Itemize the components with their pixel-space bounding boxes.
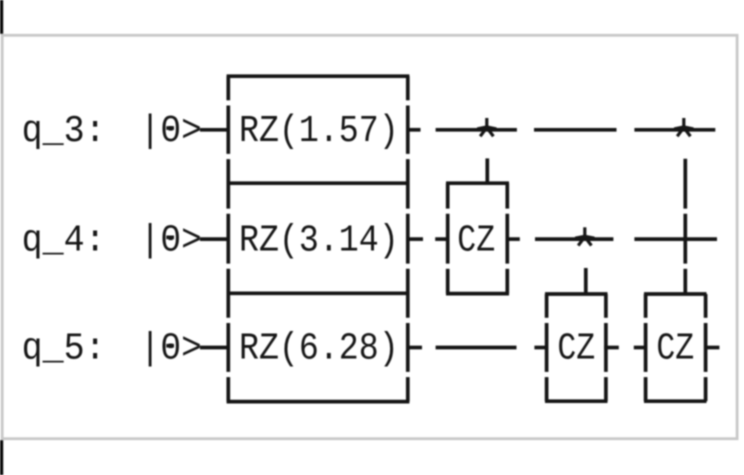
svg-text:|0>: |0>	[140, 110, 202, 153]
svg-text:|0>: |0>	[140, 328, 202, 371]
svg-text:q_5:: q_5:	[22, 328, 106, 371]
svg-text:q_3:: q_3:	[22, 110, 106, 153]
svg-text:q_4:: q_4:	[22, 219, 106, 262]
svg-text:RZ(6.28): RZ(6.28)	[239, 328, 399, 371]
svg-text:CZ: CZ	[457, 219, 495, 262]
svg-text:CZ: CZ	[557, 328, 595, 371]
svg-text:RZ(3.14): RZ(3.14)	[239, 219, 399, 262]
svg-text:|0>: |0>	[140, 219, 202, 262]
svg-text:CZ: CZ	[656, 328, 694, 371]
svg-text:RZ(1.57): RZ(1.57)	[239, 110, 399, 153]
